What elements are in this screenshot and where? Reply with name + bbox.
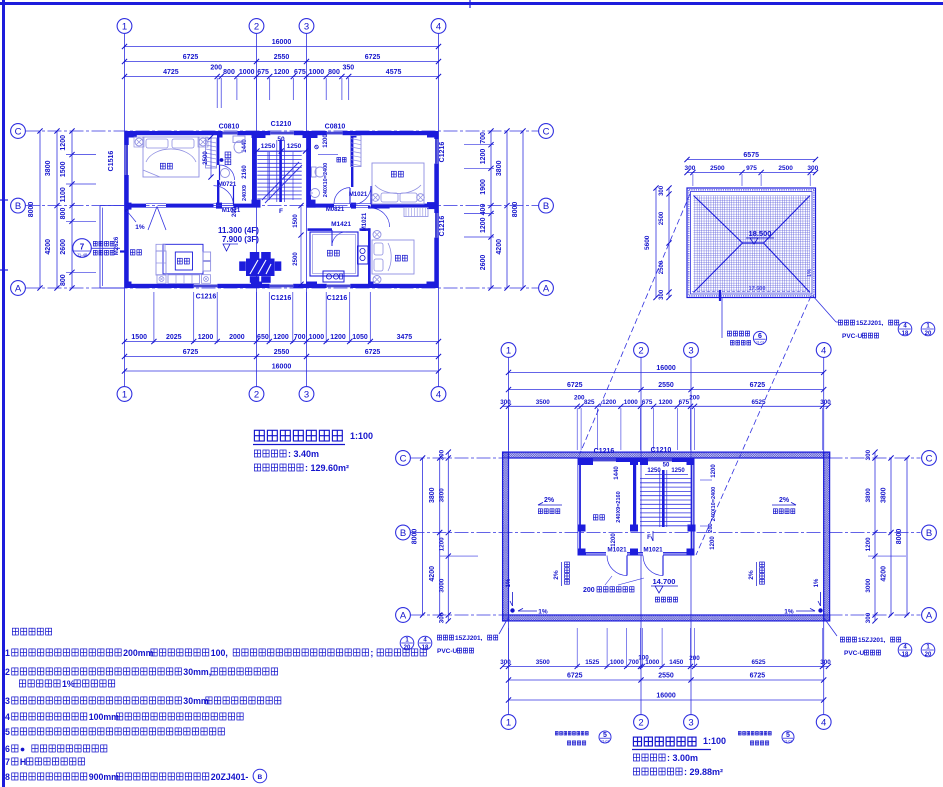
left dim col detail [71, 131, 73, 288]
bed bedroom2 [372, 163, 424, 204]
svg-text:15ZJ201,: 15ZJ201, [856, 320, 884, 327]
svg-text:2: 2 [638, 345, 643, 356]
svg-text:300: 300 [500, 659, 511, 666]
svg-text:20: 20 [404, 645, 411, 651]
svg-text:20ZJ401-: 20ZJ401- [211, 772, 249, 782]
axis bubbles bottom [117, 387, 132, 402]
svg-text:4575: 4575 [386, 69, 402, 76]
svg-text:1000: 1000 [309, 69, 325, 76]
bulkhead bottom wall with doors [578, 552, 607, 555]
svg-text:1200: 1200 [710, 536, 716, 550]
svg-text:8000: 8000 [412, 529, 419, 545]
svg-text:3800: 3800 [429, 487, 436, 503]
svg-text:B: B [400, 528, 406, 539]
svg-text:1%: 1% [135, 224, 145, 231]
svg-text:C: C [400, 453, 407, 464]
kitchen top wall M1421 [308, 228, 333, 231]
eave leader thick bar [719, 290, 721, 301]
svg-text:1:100: 1:100 [350, 431, 373, 441]
svg-text:1525: 1525 [585, 659, 600, 666]
svg-text:5: 5 [5, 727, 10, 737]
wall axis1 left exterior [125, 131, 129, 145]
title floor 3-4 plan [254, 430, 264, 441]
svg-text:1:100: 1:100 [703, 736, 726, 746]
kitchen sink [323, 271, 344, 282]
svg-text:C1216: C1216 [439, 142, 446, 163]
svg-text:2600: 2600 [60, 239, 67, 255]
svg-text:C1216: C1216 [196, 294, 217, 301]
svg-text:M1021: M1021 [222, 208, 241, 214]
roof plan right dims [874, 452, 876, 621]
floor drain bath1 [220, 159, 223, 162]
title roof plan [633, 737, 641, 746]
svg-text:;: ; [370, 648, 373, 658]
svg-text:2: 2 [254, 21, 259, 32]
svg-text:300: 300 [865, 612, 872, 623]
dashed projection lines [578, 194, 690, 458]
svg-text:B: B [15, 201, 21, 212]
svg-text:675: 675 [679, 399, 690, 406]
svg-text:M1021: M1021 [349, 192, 368, 198]
window C1210 stair [270, 132, 294, 135]
svg-text:1000: 1000 [610, 659, 625, 666]
axis line 3 [306, 34, 308, 387]
svg-text:C1210: C1210 [271, 121, 292, 128]
roof detail left dims [655, 188, 657, 298]
svg-text:300: 300 [820, 399, 831, 406]
svg-text:16000: 16000 [656, 693, 676, 700]
svg-text:650: 650 [257, 334, 269, 341]
roof detail outer rect [687, 188, 816, 298]
svg-text:1500: 1500 [131, 334, 147, 341]
svg-text:1200: 1200 [323, 134, 329, 148]
svg-text:1%: 1% [784, 609, 794, 616]
svg-text:M1021: M1021 [643, 547, 663, 554]
subtitle floor area [254, 464, 260, 471]
svg-text:300: 300 [807, 165, 818, 172]
window C0810 right [327, 132, 343, 135]
gutter leader left roofplan [499, 618, 508, 634]
svg-text:100: 100 [638, 654, 649, 661]
svg-text:A: A [15, 283, 22, 294]
svg-text:50: 50 [663, 463, 670, 469]
svg-text:H: H [20, 757, 26, 767]
svg-text:6: 6 [5, 744, 10, 754]
kitchen inner counter [313, 235, 356, 274]
axis bubbles top [117, 19, 132, 34]
sofa living room [156, 251, 166, 275]
svg-text:4: 4 [436, 389, 441, 400]
svg-text:F: F [647, 535, 651, 541]
axis line C [26, 130, 539, 132]
balcony detail bubble [73, 239, 92, 258]
svg-text:3: 3 [688, 345, 693, 356]
svg-text:C0810: C0810 [325, 124, 346, 131]
sheet border left [2, 0, 5, 787]
svg-text:PVC-U: PVC-U [842, 333, 863, 340]
svg-text:C1216: C1216 [594, 448, 615, 455]
svg-text:700: 700 [294, 334, 306, 341]
staircase treads [257, 151, 301, 153]
svg-text:2%: 2% [553, 570, 560, 580]
window C1216 living [194, 285, 218, 288]
top dim row 2 [125, 61, 439, 63]
svg-text:1: 1 [506, 717, 511, 728]
svg-text:3800: 3800 [45, 160, 52, 176]
svg-text:7.900 (3F): 7.900 (3F) [222, 235, 259, 244]
svg-text:800: 800 [60, 208, 67, 220]
sheet border top [0, 2, 943, 5]
parapet detail label right [738, 732, 741, 736]
svg-text:4: 4 [423, 637, 427, 643]
balcony label leader [92, 247, 121, 249]
roof detail top dims [687, 159, 816, 161]
balcony door M2626 [125, 232, 127, 248]
wall A exterior [125, 284, 194, 288]
roof plan axis verticals [508, 358, 510, 715]
window C1216 dining [270, 285, 294, 288]
svg-text:6525: 6525 [751, 659, 766, 666]
kitchen counter [310, 232, 358, 276]
svg-text:1: 1 [506, 345, 511, 356]
axis line 1 [124, 34, 126, 387]
svg-text:8000: 8000 [896, 529, 903, 545]
stair wall axis3 [307, 131, 312, 206]
dim 2500 bedroom1 [210, 137, 212, 177]
svg-text:: 3.40m: : 3.40m [288, 449, 319, 459]
svg-text:1200: 1200 [658, 399, 673, 406]
bed bedroom3 [372, 240, 414, 274]
svg-text:18: 18 [902, 652, 909, 658]
window C1516 left [125, 145, 128, 175]
svg-text:3500: 3500 [536, 399, 551, 406]
bulkhead stairs [640, 478, 691, 480]
svg-text:300: 300 [820, 659, 831, 666]
svg-text:B: B [543, 201, 549, 212]
roof hip ridge [743, 242, 764, 244]
window C1216 bed2 [435, 139, 438, 164]
svg-text:6: 6 [758, 333, 762, 340]
svg-text:4: 4 [903, 644, 907, 650]
svg-text:J1-01: J1-01 [756, 341, 765, 345]
svg-text:900mm: 900mm [89, 772, 119, 782]
svg-text:6525: 6525 [751, 399, 766, 406]
right dim col 3800/4200 [506, 131, 508, 288]
axis line 4 [438, 34, 440, 387]
svg-text:C1216: C1216 [327, 295, 348, 302]
bulkhead mid wall [633, 458, 636, 530]
svg-text:4: 4 [436, 21, 441, 32]
svg-text:200mm: 200mm [123, 648, 153, 658]
svg-text:18.500: 18.500 [749, 229, 772, 238]
svg-text:1000: 1000 [309, 334, 325, 341]
svg-text:200: 200 [583, 587, 595, 594]
svg-text:800: 800 [60, 274, 67, 286]
svg-text:●: ● [20, 744, 25, 754]
subtitle roof area [633, 768, 639, 775]
svg-text:675: 675 [294, 69, 306, 76]
svg-text:8000: 8000 [512, 202, 519, 218]
staircase break line [262, 162, 299, 200]
svg-text:700: 700 [480, 132, 487, 144]
svg-text:4725: 4725 [163, 69, 179, 76]
svg-text:2: 2 [638, 717, 643, 728]
svg-text:16000: 16000 [656, 365, 676, 372]
washbasin bath1 [221, 169, 230, 178]
roof plan axis horizontals [411, 457, 921, 459]
toilet bath1 [233, 136, 245, 143]
roof plan bubbles left [396, 451, 411, 466]
dining table [246, 259, 275, 277]
svg-text:240X9: 240X9 [242, 185, 248, 201]
svg-text:3: 3 [688, 717, 693, 728]
living rug [163, 244, 203, 274]
svg-text:: 29.88m²: : 29.88m² [684, 767, 723, 777]
svg-text:11.300 (4F): 11.300 (4F) [218, 226, 259, 235]
roof plan bubbles right [922, 451, 937, 466]
svg-text:1900: 1900 [480, 179, 487, 195]
svg-text:1200: 1200 [330, 334, 346, 341]
svg-text:50: 50 [277, 136, 285, 143]
svg-text:4: 4 [903, 323, 907, 329]
bottom dim total 16000 [125, 370, 439, 372]
svg-text:4200: 4200 [429, 566, 436, 582]
bed bedroom1 [143, 137, 199, 177]
svg-text:1100: 1100 [60, 187, 67, 202]
svg-text:5: 5 [786, 732, 790, 739]
svg-text:1: 1 [926, 644, 930, 650]
left dim col 3800/4200 [56, 131, 58, 288]
bulkhead columns [578, 458, 586, 465]
nightstand flowers bedroom1 [135, 138, 143, 146]
bulkhead stair dims [645, 474, 688, 476]
svg-text:M1021: M1021 [362, 212, 368, 231]
svg-text:1200: 1200 [602, 399, 617, 406]
svg-text:100,: 100, [211, 648, 228, 658]
svg-text:3: 3 [304, 389, 309, 400]
svg-text:240X10=2400: 240X10=2400 [323, 163, 329, 197]
svg-text:6725: 6725 [567, 673, 583, 680]
roof plan bubbles top [501, 343, 516, 358]
door M0821 [349, 188, 351, 204]
svg-text:6725: 6725 [750, 673, 766, 680]
svg-text:675: 675 [257, 69, 269, 76]
svg-text:C1216: C1216 [439, 216, 446, 237]
gutter leader right [813, 296, 837, 323]
svg-text:2550: 2550 [658, 673, 674, 680]
bulkhead wall inner white lines [578, 462, 580, 552]
svg-text:J1-01: J1-01 [784, 740, 793, 744]
balcony rail [99, 206, 101, 288]
svg-text:8000: 8000 [28, 202, 35, 218]
svg-text:1500: 1500 [293, 214, 299, 228]
svg-text:2600: 2600 [480, 255, 487, 271]
window C1216 bed3 [435, 213, 438, 238]
roof eave dashed line [692, 291, 811, 293]
svg-text:M1021: M1021 [607, 547, 627, 554]
svg-text:1250: 1250 [261, 143, 276, 150]
svg-text:1%: 1% [538, 609, 548, 616]
svg-text:20: 20 [925, 331, 932, 337]
wall C exterior [125, 131, 222, 135]
door M1021 bed2 [370, 186, 372, 205]
bulkhead walls [578, 458, 593, 462]
staircase center rail [279, 140, 282, 202]
svg-text:2: 2 [254, 389, 259, 400]
svg-text:3000: 3000 [865, 578, 872, 593]
bottom dim row detail [125, 341, 439, 343]
svg-text:240X9=2160: 240X9=2160 [616, 491, 622, 522]
svg-text:2500: 2500 [659, 211, 665, 225]
kitchen stove [358, 246, 369, 264]
wardrobe bedroom2 [351, 136, 362, 167]
svg-text:4200: 4200 [45, 239, 52, 255]
subtitle roof height [633, 754, 639, 761]
parapet walls [503, 452, 830, 458]
bath2 wall right [351, 131, 353, 187]
svg-text:1500: 1500 [60, 161, 67, 177]
svg-text:1200: 1200 [274, 69, 290, 76]
svg-text:675: 675 [642, 399, 653, 406]
svg-text:200: 200 [210, 65, 222, 72]
axis bubbles right [539, 124, 554, 139]
svg-text:C1210: C1210 [651, 447, 672, 454]
svg-text:C: C [543, 126, 550, 137]
door M1021 bath1 [214, 205, 234, 207]
svg-text:1440: 1440 [614, 466, 620, 480]
svg-text:6725: 6725 [183, 54, 199, 61]
right dim col 8000 [522, 131, 524, 288]
svg-text:M2626: M2626 [114, 236, 120, 255]
svg-text:PVC-U: PVC-U [437, 648, 458, 655]
svg-text:2550: 2550 [658, 382, 674, 389]
label bedroom3 [395, 255, 400, 261]
wall B interior [125, 204, 147, 208]
svg-text:300: 300 [659, 289, 665, 300]
svg-text:1250: 1250 [671, 468, 685, 474]
svg-text:6725: 6725 [183, 349, 199, 356]
window C0810 left [222, 132, 238, 135]
label bath1 [225, 152, 231, 165]
svg-text:18: 18 [422, 645, 429, 651]
gutter leader right roofplan [824, 618, 837, 636]
notes heading [12, 628, 18, 635]
svg-text:300: 300 [500, 399, 511, 406]
svg-text:A: A [543, 283, 550, 294]
svg-text:5600: 5600 [644, 235, 651, 250]
dining chairs [250, 252, 259, 259]
svg-text:1: 1 [122, 389, 127, 400]
svg-text:350: 350 [342, 65, 354, 72]
svg-text:6725: 6725 [750, 382, 766, 389]
svg-text:3800: 3800 [881, 487, 888, 503]
svg-text:C0810: C0810 [219, 124, 240, 131]
roof plan witness 1200 [440, 555, 478, 557]
svg-text:975: 975 [746, 165, 757, 172]
svg-text:16000: 16000 [272, 364, 292, 371]
stair wall axis2 [252, 131, 257, 206]
svg-text:4: 4 [821, 345, 826, 356]
stair witness lines [269, 152, 271, 200]
svg-text:J1-01: J1-01 [601, 740, 610, 744]
svg-text:100mm: 100mm [89, 712, 119, 722]
axis line 2 [256, 34, 258, 387]
top witness lines [216, 78, 218, 100]
svg-text:4200: 4200 [496, 239, 503, 255]
svg-text:M0821: M0821 [326, 207, 345, 213]
svg-text:1200: 1200 [60, 135, 67, 151]
svg-text:1200: 1200 [711, 464, 717, 478]
svg-text:1000: 1000 [239, 69, 255, 76]
svg-text:3: 3 [5, 696, 10, 706]
svg-text:1: 1 [405, 637, 409, 643]
door sill lines B wall [146, 203, 166, 205]
svg-text:2%: 2% [779, 497, 790, 504]
svg-text:: 129.60m²: : 129.60m² [305, 463, 349, 473]
tv cabinet living [203, 252, 211, 261]
svg-text:200: 200 [708, 523, 714, 532]
svg-text:300: 300 [659, 185, 665, 196]
svg-text:C1216: C1216 [271, 295, 292, 302]
label stair room [593, 515, 598, 520]
svg-text:1: 1 [926, 323, 930, 329]
parapet detail label left [555, 732, 558, 736]
svg-text:M1421: M1421 [331, 221, 351, 228]
svg-text:7: 7 [80, 243, 85, 252]
bulkhead right wall [691, 458, 694, 556]
svg-text:2500: 2500 [710, 165, 725, 172]
svg-text:1200: 1200 [611, 533, 617, 547]
svg-text:3475: 3475 [397, 334, 413, 341]
stair dim 1250/50/1250 [257, 150, 306, 152]
door swing bedroom1 entry [148, 207, 157, 231]
bottom dim row 2 [125, 356, 439, 358]
svg-text:2500: 2500 [293, 252, 299, 266]
svg-text:C: C [15, 126, 22, 137]
svg-text:2: 2 [5, 667, 10, 677]
roof plan bottom dims [503, 665, 829, 667]
axis line B [26, 205, 539, 207]
svg-text:1: 1 [5, 648, 10, 658]
svg-text:6575: 6575 [743, 152, 759, 159]
coffee table + label living [175, 252, 192, 270]
svg-text:1200: 1200 [198, 334, 214, 341]
svg-text:3800: 3800 [496, 160, 503, 176]
svg-text:30mm,: 30mm, [183, 667, 211, 677]
rug below bedroom2 [404, 208, 428, 217]
svg-text:20: 20 [925, 652, 932, 658]
staircase up arrow [267, 152, 269, 198]
svg-text:2000: 2000 [229, 334, 245, 341]
wall axis4 right exterior [434, 131, 438, 139]
axis line A [26, 287, 539, 289]
svg-text:2%: 2% [544, 497, 555, 504]
svg-text:300: 300 [865, 449, 872, 460]
door M0721 bath1 [219, 165, 221, 180]
svg-text:A: A [926, 610, 933, 621]
window C1216 kitchen [327, 285, 351, 288]
left dim col 8000 [39, 131, 41, 288]
svg-text:J1-48: J1-48 [77, 253, 88, 258]
bulkhead left wall [578, 458, 581, 556]
svg-text:2500: 2500 [659, 260, 665, 274]
svg-text:C1516: C1516 [108, 151, 115, 172]
svg-text:B: B [926, 528, 932, 539]
svg-text:1200: 1200 [273, 334, 289, 341]
svg-text:1200: 1200 [480, 149, 487, 165]
svg-text:3800: 3800 [865, 488, 872, 503]
roof detail tick band [689, 189, 814, 191]
